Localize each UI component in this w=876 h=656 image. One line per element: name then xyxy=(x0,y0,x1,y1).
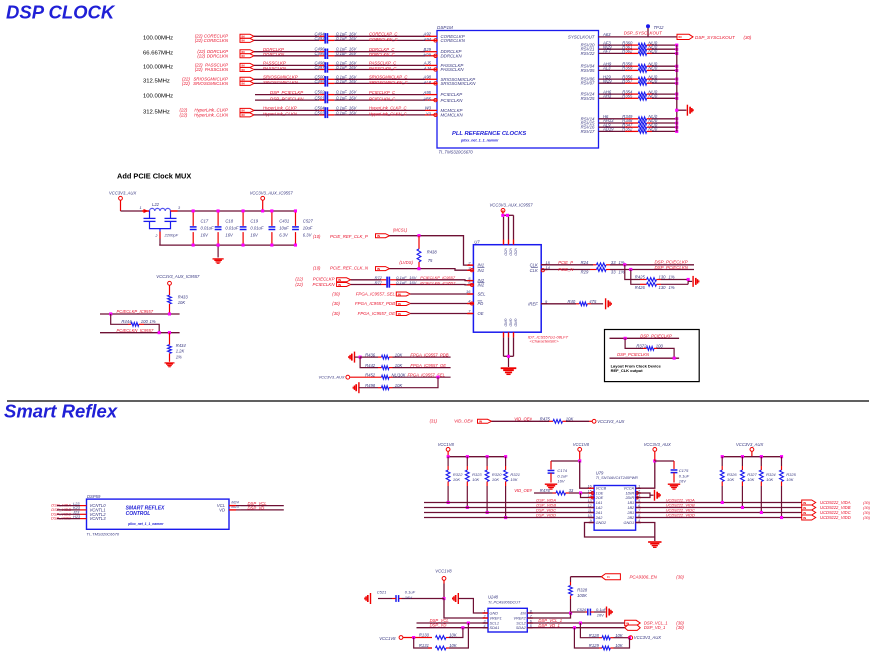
svg-text:PASSCLKN: PASSCLKN xyxy=(441,67,465,72)
svg-text:14: 14 xyxy=(588,494,592,498)
svg-text:(30): (30) xyxy=(676,625,684,630)
svg-text:NL/10K: NL/10K xyxy=(392,372,406,377)
resistor R320 10K xyxy=(486,455,489,458)
wire FPGA_IC9557_OE xyxy=(410,313,473,315)
svg-text:VDD: VDD xyxy=(504,248,508,256)
svg-text:R476: R476 xyxy=(540,488,551,493)
svg-text:VCC1V8: VCC1V8 xyxy=(438,442,455,447)
svg-text:R444: R444 xyxy=(121,319,132,324)
port UCD9222_VIDD xyxy=(802,515,816,520)
svg-text:DSP_VD_1: DSP_VD_1 xyxy=(644,625,665,630)
wire EN xyxy=(527,612,570,614)
resistor R327 10K xyxy=(741,455,744,458)
svg-text:10K: 10K xyxy=(510,477,517,482)
wire to bus xyxy=(652,118,677,120)
svg-text:DDRCLKN_C: DDRCLKN_C xyxy=(369,52,396,57)
port HyperLink_CLKN xyxy=(240,113,254,117)
svg-text:PCIECLKP_C: PCIECLKP_C xyxy=(369,90,396,95)
svg-text:AJ4: AJ4 xyxy=(423,66,432,71)
svg-text:DSP_VIDD: DSP_VIDD xyxy=(536,513,556,518)
port DDRCLKN xyxy=(240,54,254,58)
wire TP12 branch xyxy=(647,27,649,37)
svg-text:VID_OE#: VID_OE# xyxy=(514,416,532,421)
ground R434 xyxy=(165,362,175,364)
wire pullup rail right xyxy=(722,456,781,458)
svg-text:OE: OE xyxy=(478,311,484,316)
svg-text:H29: H29 xyxy=(423,52,431,57)
svg-text:AJ5: AJ5 xyxy=(423,61,432,66)
port SRIOSGMIICLKP xyxy=(240,77,254,81)
wire RSV21 xyxy=(599,48,626,50)
wire bus DSP_VIDC xyxy=(424,512,594,514)
junction xyxy=(721,501,724,504)
svg-text:HyperLink_CLKN_C: HyperLink_CLKN_C xyxy=(369,111,408,116)
svg-text:UCD9222_VIDD: UCD9222_VIDD xyxy=(820,515,851,520)
svg-text:10K: 10K xyxy=(615,633,623,638)
svg-text:VCCA: VCCA xyxy=(624,487,635,491)
wire RSV20 xyxy=(599,44,626,46)
svg-text:(31): (31) xyxy=(430,419,438,424)
ground xyxy=(686,105,688,116)
svg-text:FPGA_IC9557_PDB: FPGA_IC9557_PDB xyxy=(355,301,395,306)
svg-text:DSP1M: DSP1M xyxy=(437,25,453,30)
wire RSV termination bus xyxy=(676,45,678,131)
wire bus DSP_VIDD xyxy=(424,517,594,519)
port UCD9222_VIDC xyxy=(802,510,816,515)
svg-text:SRIOSGMIICLKP_C: SRIOSGMIICLKP_C xyxy=(369,75,408,80)
svg-text:FPGA_IC9557_PDB: FPGA_IC9557_PDB xyxy=(410,352,448,357)
svg-text:(30): (30) xyxy=(863,515,871,520)
svg-text:(22): (22) xyxy=(179,113,187,118)
svg-text:DSP_VD_1: DSP_VD_1 xyxy=(538,623,559,628)
junction xyxy=(447,501,450,504)
svg-text:R131: R131 xyxy=(419,643,429,648)
power VCC3V3_AUX xyxy=(592,419,596,423)
ground DIR xyxy=(654,490,656,501)
pin bubble xyxy=(434,54,437,57)
wire to bus xyxy=(652,97,677,99)
port UCD9222_VIDA xyxy=(802,500,816,505)
svg-text:R326: R326 xyxy=(727,472,737,477)
svg-text:PCIECLKN: PCIECLKN xyxy=(313,282,336,287)
wire UCD9222_VIDB xyxy=(636,507,802,509)
svg-text:C431: C431 xyxy=(279,218,289,223)
junction xyxy=(675,122,678,125)
svg-text:75: 75 xyxy=(428,258,433,263)
wire RSV15 xyxy=(599,122,626,124)
svg-text:10K: 10K xyxy=(472,477,479,482)
wire PCIECLKN_IC9557 xyxy=(100,332,180,334)
pin stubs U7 xyxy=(467,264,473,266)
junction xyxy=(675,130,678,133)
ground U7 xyxy=(501,367,517,369)
resistor R128 10K xyxy=(580,623,599,638)
capacitor C174 0.1uF xyxy=(551,460,580,462)
svg-text:RSV25: RSV25 xyxy=(581,96,595,101)
resistor R325 10K xyxy=(780,455,783,458)
svg-text:TI_PCA9306DCUT: TI_PCA9306DCUT xyxy=(488,600,521,604)
svg-text:DSP_VD: DSP_VD xyxy=(248,506,265,511)
svg-text:VD: VD xyxy=(219,507,225,512)
wire to bus xyxy=(652,93,677,95)
wire RSV06 xyxy=(599,78,626,80)
wire to bus xyxy=(652,122,677,124)
wire to ground xyxy=(677,109,687,111)
wire CORECLKN to cap xyxy=(254,39,319,41)
svg-text:15: 15 xyxy=(588,489,592,493)
svg-text:R322: R322 xyxy=(453,472,463,477)
svg-text:R327: R327 xyxy=(747,472,757,477)
resistor R452 NL/10K xyxy=(350,376,382,378)
svg-text:16V: 16V xyxy=(250,232,259,237)
svg-text:R321: R321 xyxy=(510,472,520,477)
wire DDRCLKP to cap xyxy=(254,51,319,53)
junction xyxy=(675,52,678,55)
svg-text:PASSCLKN: PASSCLKN xyxy=(205,67,229,72)
svg-text:1B1: 1B1 xyxy=(627,501,634,505)
capacitor C175 0.1uF xyxy=(655,460,674,462)
svg-text:CLK: CLK xyxy=(530,268,538,273)
svg-text:C17: C17 xyxy=(201,218,209,223)
capacitor C431 10uF xyxy=(271,211,273,226)
junction xyxy=(504,516,507,519)
svg-text:IN: IN xyxy=(803,516,806,520)
svg-text:R328: R328 xyxy=(577,587,588,592)
capacitor C494 / C493 xyxy=(324,33,326,44)
svg-text:SRIOSGMIICLKN: SRIOSGMIICLKN xyxy=(441,81,477,86)
svg-text:VDD: VDD xyxy=(509,248,513,256)
svg-text:HyperLink_CLKN: HyperLink_CLKN xyxy=(194,113,229,118)
svg-text:PCIE_REF_CLK_N: PCIE_REF_CLK_N xyxy=(330,265,369,270)
svg-text:C527: C527 xyxy=(303,218,314,223)
svg-text:10uF: 10uF xyxy=(303,225,313,230)
wire HyperLink_CLKN_C to DSP1M xyxy=(328,114,334,116)
wire to bus xyxy=(652,65,677,67)
wire DSP_VCL to SCL1 xyxy=(417,622,489,624)
svg-text:R452: R452 xyxy=(365,372,376,377)
svg-text:SCL1: SCL1 xyxy=(490,622,500,626)
svg-text:R434: R434 xyxy=(176,343,187,348)
ground cap bank xyxy=(217,245,219,257)
svg-text:R433: R433 xyxy=(178,294,189,299)
svg-text:IN: IN xyxy=(377,234,380,238)
wire to bus xyxy=(652,44,677,46)
svg-text:PCIECLKN: PCIECLKN xyxy=(441,98,464,103)
wire cap bank top rail xyxy=(171,210,178,212)
ground C521 xyxy=(370,593,372,604)
svg-text:1%: 1% xyxy=(619,270,625,275)
wire PCIECLKP with cap R72 xyxy=(351,279,381,281)
wire RSV17 xyxy=(599,130,626,132)
wire DDRCLKN_C to DSP1M xyxy=(328,55,334,57)
svg-text:2A1: 2A1 xyxy=(595,511,603,515)
svg-text:130: 130 xyxy=(659,285,667,290)
port CORECLKN xyxy=(240,38,254,42)
svg-text:AB5: AB5 xyxy=(422,97,432,102)
svg-text:GND: GND xyxy=(490,612,499,616)
svg-text:15: 15 xyxy=(545,260,550,265)
wire DSP_PCIECLKN xyxy=(610,269,694,271)
svg-text:DDRCLKN: DDRCLKN xyxy=(263,52,285,57)
resistor R425 130 1% xyxy=(625,265,640,280)
svg-text:130: 130 xyxy=(659,275,667,280)
port SRIOSGMIICLKN xyxy=(240,81,254,85)
wire UCD9222_VIDC xyxy=(636,512,802,514)
svg-text:C503: C503 xyxy=(314,110,325,115)
svg-text:IN: IN xyxy=(607,575,610,579)
svg-text:2200pF: 2200pF xyxy=(164,233,179,238)
svg-text:U7: U7 xyxy=(474,240,480,245)
wire 1OE 2OE tie xyxy=(569,492,594,494)
svg-text:R323: R323 xyxy=(472,472,482,477)
svg-text:R362: R362 xyxy=(622,49,633,54)
svg-text:PCIE_REF_CLK_P: PCIE_REF_CLK_P xyxy=(330,234,368,239)
wire to L22 xyxy=(121,210,143,212)
svg-text:10K: 10K xyxy=(786,477,793,482)
svg-text:TI_TMS320C6670: TI_TMS320C6670 xyxy=(86,531,119,536)
svg-text:100K: 100K xyxy=(577,593,587,598)
ground R498 xyxy=(358,382,360,393)
svg-text:R475: R475 xyxy=(540,416,551,421)
svg-text:FPGA_IC9557_SEL: FPGA_IC9557_SEL xyxy=(408,372,446,377)
op-amp U-DSP1M block outline xyxy=(437,31,599,149)
svg-text:VCC1V8: VCC1V8 xyxy=(379,636,396,641)
pin bubble xyxy=(434,98,437,101)
capacitor C17 0.01uF xyxy=(192,211,194,226)
svg-text:10K: 10K xyxy=(492,477,499,482)
svg-text:EN: EN xyxy=(521,612,527,616)
svg-text:2: 2 xyxy=(155,234,158,238)
junction xyxy=(675,126,678,129)
resistor R129 10K xyxy=(574,628,599,648)
svg-text:IN: IN xyxy=(242,68,245,72)
svg-text:IN: IN xyxy=(338,278,341,282)
svg-text:2: 2 xyxy=(483,614,486,618)
svg-text:C521: C521 xyxy=(377,589,387,594)
svg-text:C493: C493 xyxy=(314,36,325,41)
svg-text:0.01uF: 0.01uF xyxy=(250,225,263,230)
ground C174 xyxy=(545,483,557,485)
wire VREF2 xyxy=(527,613,570,618)
svg-text:DSP_PCIECLKN: DSP_PCIECLKN xyxy=(655,265,689,270)
svg-text:R372: R372 xyxy=(636,343,647,348)
svg-text:10K: 10K xyxy=(178,300,186,305)
svg-text:IN1: IN1 xyxy=(478,268,485,273)
svg-text:6.3V: 6.3V xyxy=(303,232,313,237)
svg-text:Add PCIE Clock MUX: Add PCIE Clock MUX xyxy=(117,172,191,181)
ground IREF xyxy=(605,298,607,309)
capacitor C18 0.01uF xyxy=(217,211,219,226)
wire DDRCLKP_C to DSP1M xyxy=(328,51,334,53)
svg-text:66.667MHz: 66.667MHz xyxy=(143,51,173,57)
testpoint TP12 xyxy=(646,24,650,28)
wire to bus xyxy=(652,126,677,128)
resistor R372 100 xyxy=(625,338,643,348)
svg-text:GND: GND xyxy=(504,319,508,327)
port DSP_VD_1 xyxy=(625,625,641,630)
wire RSV04 xyxy=(599,65,626,67)
port PCIECLKN xyxy=(337,283,351,287)
svg-text:A63: A63 xyxy=(602,32,611,37)
svg-text:C502: C502 xyxy=(314,90,325,95)
pin bubble xyxy=(434,82,437,85)
svg-text:IN: IN xyxy=(377,267,380,271)
junction xyxy=(675,117,678,120)
svg-text:B29: B29 xyxy=(424,47,432,52)
wire GND1 route xyxy=(636,523,655,542)
wire DSP_VD xyxy=(229,509,236,511)
svg-text:VCNTL3: VCNTL3 xyxy=(90,516,107,521)
svg-text:VID_OE#: VID_OE# xyxy=(454,419,473,424)
svg-text:2B1: 2B1 xyxy=(626,511,634,515)
svg-text:pllxx_net_1_1_nammr: pllxx_net_1_1_nammr xyxy=(460,139,499,143)
wire PCIE_REF_CLK_N xyxy=(390,269,474,271)
svg-text:(22): (22) xyxy=(295,277,303,282)
port DSP_VCL_1 xyxy=(625,620,641,625)
wire PCIE_P out xyxy=(541,264,593,266)
wire PCIECLKN with cap R77 xyxy=(351,284,381,286)
resistor R438 75 xyxy=(418,236,420,249)
svg-text:100: 100 xyxy=(141,319,149,324)
svg-text:(30): (30) xyxy=(332,301,340,306)
junction xyxy=(675,48,678,51)
svg-text:(10): (10) xyxy=(313,234,321,239)
svg-text:16V: 16V xyxy=(225,232,234,237)
junction xyxy=(675,82,678,85)
wire VCNTL0 xyxy=(57,505,80,507)
svg-text:1%: 1% xyxy=(176,354,182,359)
capacitor C502 / C501 xyxy=(324,91,326,103)
svg-text:DSP_SYSCLKOUT: DSP_SYSCLKOUT xyxy=(624,31,662,36)
svg-text:(22): (22) xyxy=(182,81,190,86)
svg-text:AL8: AL8 xyxy=(423,80,432,85)
svg-text:HyperLink_CLKP_C: HyperLink_CLKP_C xyxy=(369,106,407,111)
svg-text:FPGA_IC9557_SEL: FPGA_IC9557_SEL xyxy=(356,292,396,297)
wire VCNTL3 xyxy=(57,518,80,520)
port PCIE_REF_CLK_P xyxy=(376,234,390,238)
svg-text:IN: IN xyxy=(398,312,401,316)
svg-text:Smart Reflex: Smart Reflex xyxy=(4,401,118,422)
junction xyxy=(675,69,678,72)
svg-text:PCIE_N: PCIE_N xyxy=(558,267,574,272)
svg-text:PASSCLKN_C: PASSCLKN_C xyxy=(369,66,397,71)
svg-text:C526: C526 xyxy=(577,607,587,612)
junction xyxy=(675,44,678,47)
power VCC3V3_AUX pca xyxy=(629,636,633,640)
junction xyxy=(675,78,678,81)
svg-text:R359: R359 xyxy=(622,66,633,71)
svg-text:(22): (22) xyxy=(197,53,205,58)
svg-text:R426: R426 xyxy=(635,285,646,290)
svg-text:VCC3V3_AUX: VCC3V3_AUX xyxy=(644,442,671,447)
resistor R442 10K xyxy=(378,367,382,369)
port PASSCLKN xyxy=(240,68,254,72)
port VID_OE# xyxy=(478,419,492,423)
wire RSV22 xyxy=(599,52,626,54)
wire note bottom xyxy=(610,357,680,359)
wire HyperLink_CLKP_C to DSP1M xyxy=(328,109,334,111)
svg-text:IN: IN xyxy=(242,82,245,86)
svg-text:10K: 10K xyxy=(449,633,457,638)
svg-text:1.2K: 1.2K xyxy=(176,349,185,354)
capacitor C527 10uF xyxy=(295,211,297,226)
svg-text:pllxx_net_1_1_nammr: pllxx_net_1_1_nammr xyxy=(127,522,164,526)
wire RSV16 xyxy=(599,126,626,128)
svg-text:1OE: 1OE xyxy=(596,492,604,496)
svg-text:0.01uF: 0.01uF xyxy=(225,225,238,230)
svg-text:IN: IN xyxy=(803,506,806,510)
svg-text:RSV05: RSV05 xyxy=(581,68,595,73)
resistor R130 10K xyxy=(403,637,432,639)
wire FPGA_IC9557_PDB xyxy=(410,303,473,305)
svg-text:C495: C495 xyxy=(314,51,325,56)
port FPGA_IC9557_PDB xyxy=(396,302,410,306)
note box layout xyxy=(605,330,700,382)
wire DSP_PCIECLKN to cap xyxy=(255,99,319,101)
svg-text:DSP_PCIECLKN: DSP_PCIECLKN xyxy=(617,352,650,357)
svg-text:R498: R498 xyxy=(365,383,376,388)
port HyperLink_CLKP xyxy=(240,108,254,112)
junction xyxy=(675,65,678,68)
svg-text:C497: C497 xyxy=(314,65,325,70)
wire R475 to VCC3V3_AUX xyxy=(566,420,589,422)
svg-text:PCIECLKN_IC9557: PCIECLKN_IC9557 xyxy=(420,280,456,285)
wire RSV14 xyxy=(599,118,626,120)
svg-text:IN: IN xyxy=(803,511,806,515)
port PCA9306_EN xyxy=(601,574,620,580)
resistor R324 10K xyxy=(760,455,763,458)
wire PCIECLKP_C to DSP1M xyxy=(328,94,334,96)
wire bus DSP_VIDA xyxy=(424,502,594,504)
port PCIE_REF_CLK_N xyxy=(376,267,390,271)
wire PASSCLKP_C to DSP1M xyxy=(328,64,334,66)
wire RSV24 xyxy=(599,93,626,95)
svg-text:1: 1 xyxy=(484,609,486,613)
svg-text:1A1: 1A1 xyxy=(596,501,603,505)
svg-text:10K: 10K xyxy=(395,352,403,357)
wire PASSCLKP to cap xyxy=(254,64,319,66)
port UCD9222_VIDB xyxy=(802,505,816,510)
wire PCIE_REF_CLK_P xyxy=(390,236,474,265)
svg-text:R357: R357 xyxy=(622,78,633,83)
capacitor C526 0.1uF xyxy=(571,611,586,613)
wire PCA9306_EN port xyxy=(571,576,602,578)
svg-text:10K: 10K xyxy=(615,643,623,648)
pin bubble xyxy=(434,39,437,42)
capacitor C496 / C495 xyxy=(324,49,326,60)
resistor R426 130 1% xyxy=(631,270,640,285)
svg-text:VCC3V3_AUX: VCC3V3_AUX xyxy=(736,442,763,447)
svg-text:10K: 10K xyxy=(395,363,403,368)
ground C175 xyxy=(668,483,680,485)
svg-text:2OE: 2OE xyxy=(595,496,604,500)
svg-text:(30): (30) xyxy=(744,35,752,40)
capacitor C500 / C499 xyxy=(324,76,326,87)
svg-text:TI_TMS320C6670: TI_TMS320C6670 xyxy=(439,150,474,155)
wire to bus xyxy=(652,52,677,54)
svg-text:GND: GND xyxy=(514,319,518,327)
capacitor C19 0.01uF xyxy=(242,211,244,226)
svg-text:C499: C499 xyxy=(314,79,325,84)
svg-text:6.3V: 6.3V xyxy=(279,232,289,237)
svg-text:VCCB: VCCB xyxy=(596,487,607,491)
svg-text:C501: C501 xyxy=(314,96,324,101)
svg-text:16V: 16V xyxy=(409,280,416,285)
wire to bus xyxy=(652,82,677,84)
svg-text:VCC3V3_AUX: VCC3V3_AUX xyxy=(318,375,344,380)
port CORECLKP xyxy=(240,34,254,38)
svg-text:VCC3V3_AUX: VCC3V3_AUX xyxy=(634,635,661,640)
